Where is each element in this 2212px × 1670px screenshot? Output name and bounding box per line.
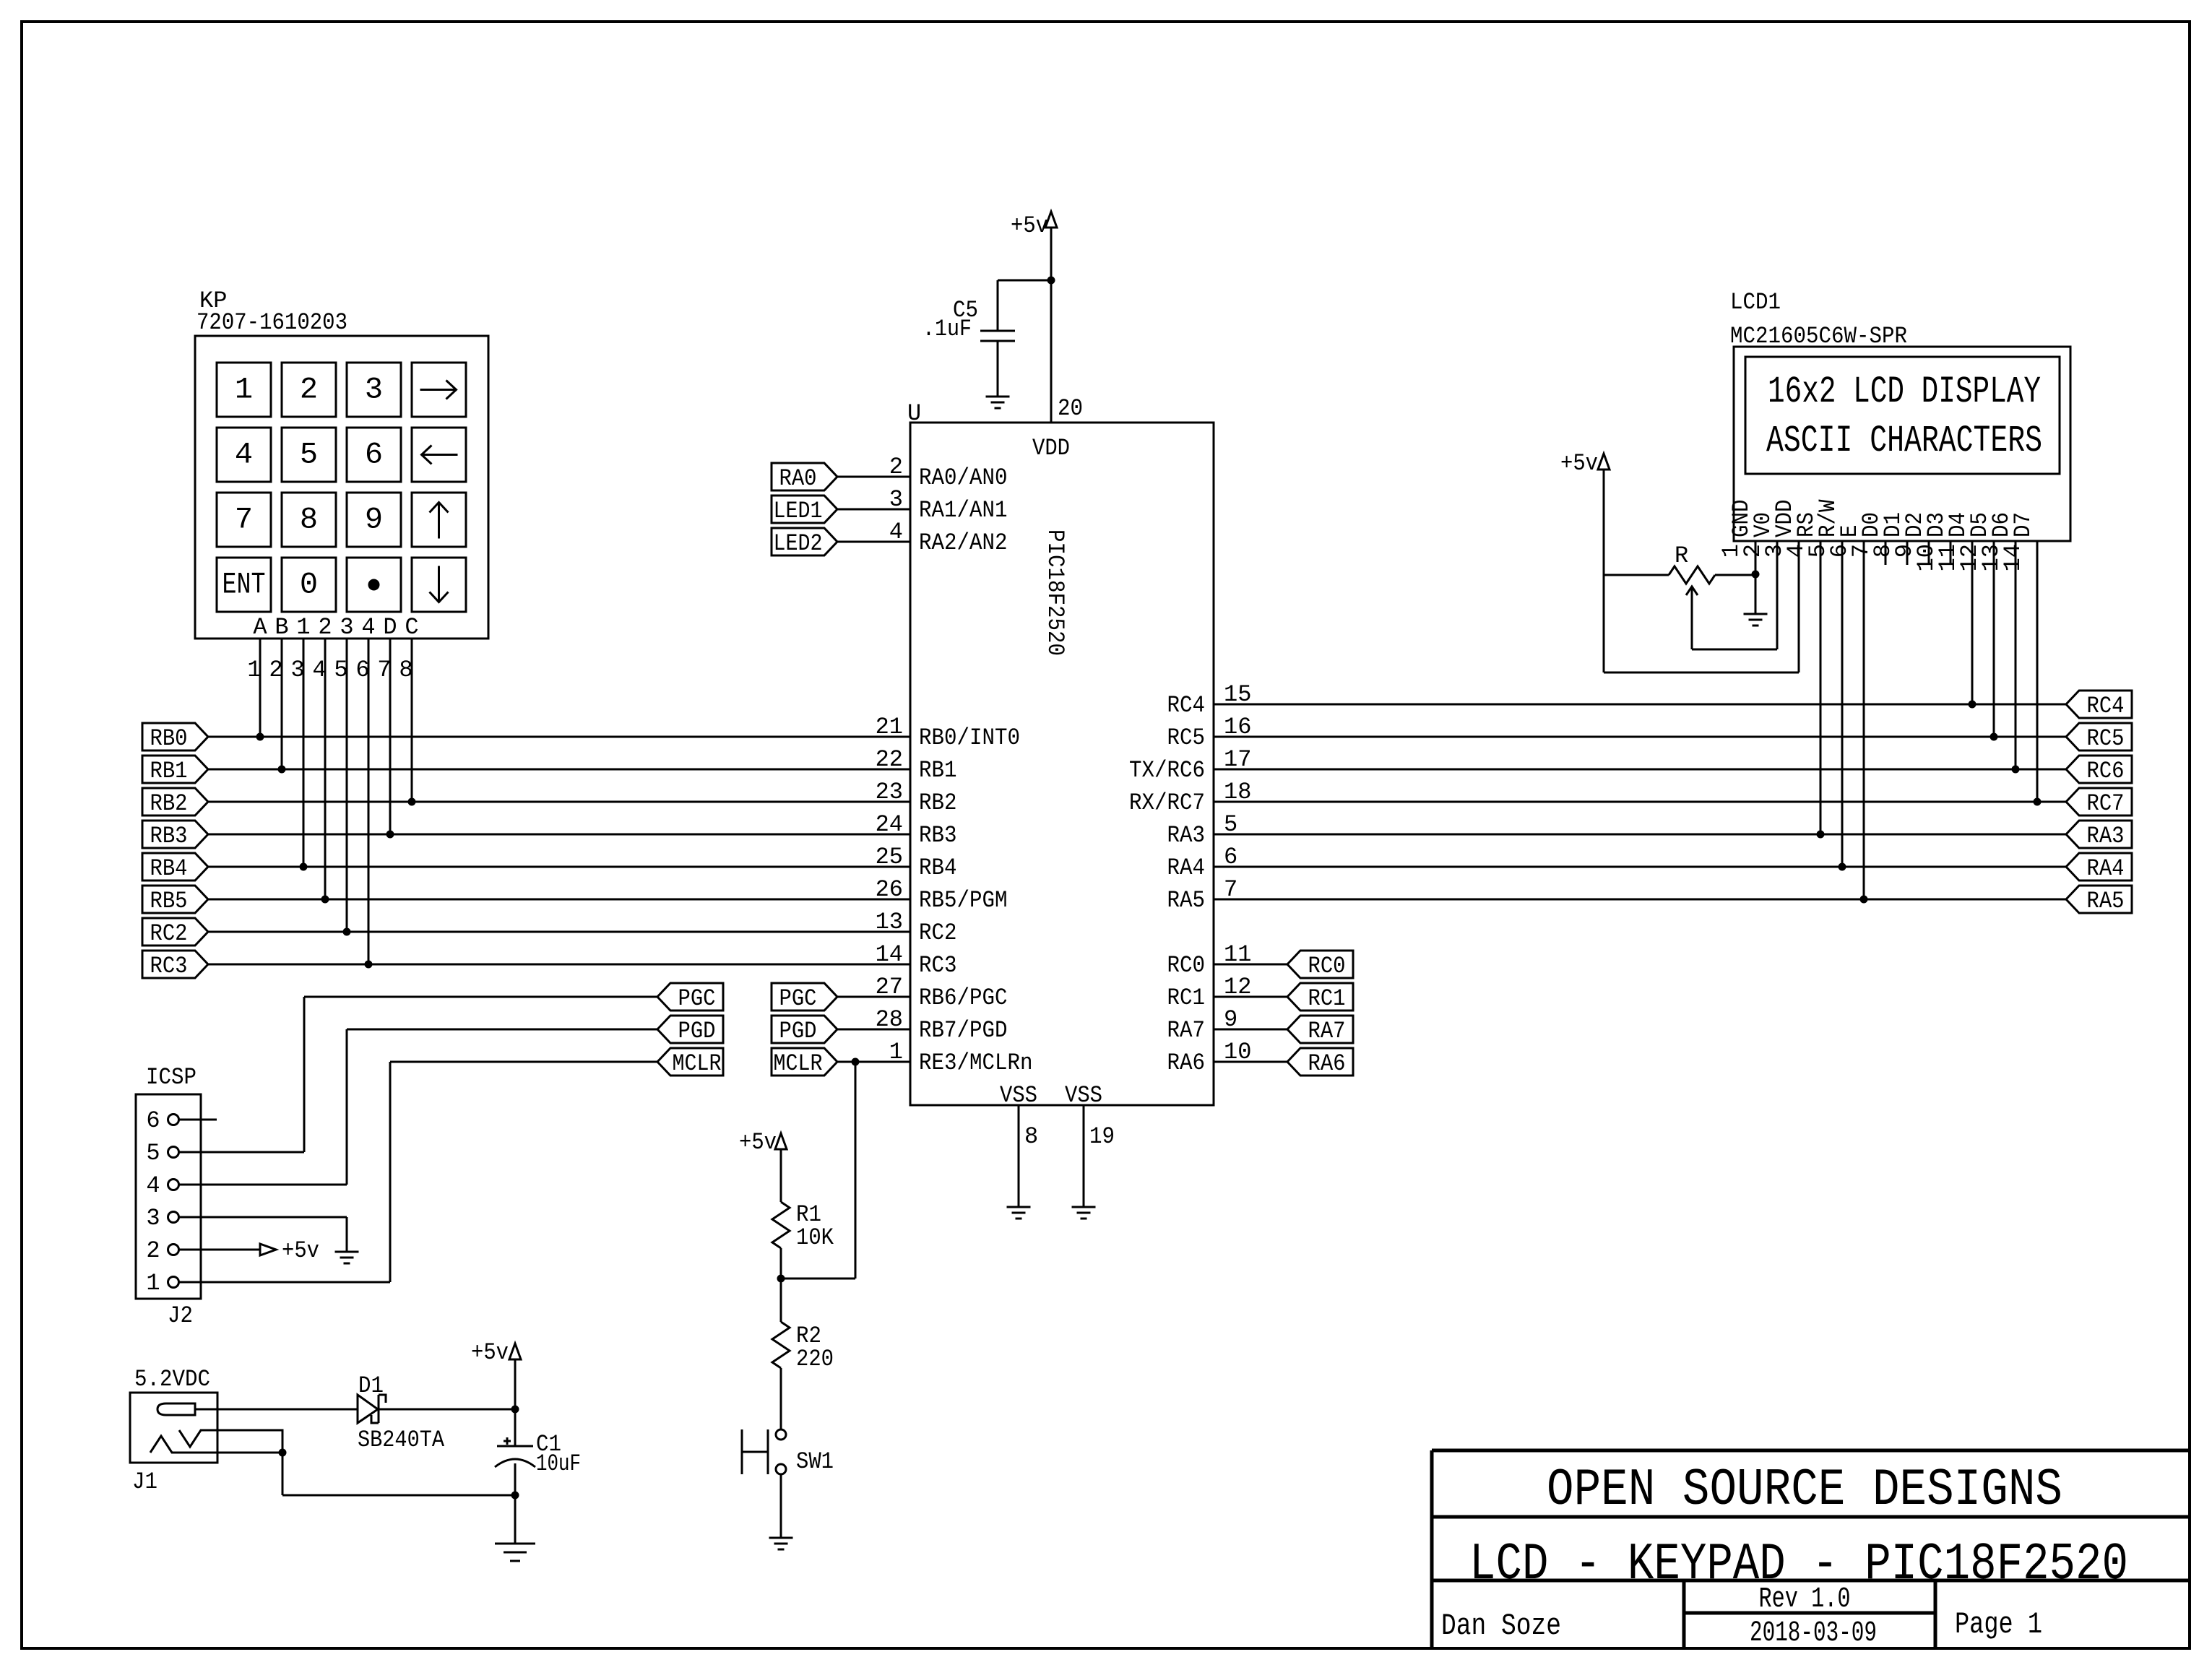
svg-text:RB3: RB3 xyxy=(150,823,188,849)
svg-text:RA0: RA0 xyxy=(779,465,817,492)
svg-text:2018-03-09: 2018-03-09 xyxy=(1750,1617,1877,1650)
net flag RC0 xyxy=(1287,951,1353,978)
svg-text:ASCII CHARACTERS: ASCII CHARACTERS xyxy=(1766,420,2042,462)
wire J2 pin3 to ground xyxy=(179,1216,347,1219)
junction xyxy=(365,961,373,969)
svg-text:ICSP: ICSP xyxy=(146,1064,196,1091)
net flag MCLR (ICSP side) xyxy=(657,1048,723,1076)
wire MCLR to R1/R2 node xyxy=(852,1058,860,1066)
ground SW1 xyxy=(769,1537,793,1539)
wire RC5 xyxy=(1214,736,2066,738)
svg-text:2: 2 xyxy=(889,454,903,480)
net flag PGD (chip side) xyxy=(772,1016,837,1043)
ground J2 pin3 xyxy=(335,1251,359,1253)
junction xyxy=(1817,831,1825,839)
svg-text:RC1: RC1 xyxy=(1167,985,1206,1011)
svg-text:+5v: +5v xyxy=(1560,450,1598,477)
svg-text:RB1: RB1 xyxy=(150,758,188,784)
wire LCD pin4 RS xyxy=(1820,541,1822,834)
svg-text:RC2: RC2 xyxy=(919,920,957,946)
potentiometer R xyxy=(1669,566,1715,584)
svg-text:0: 0 xyxy=(300,568,318,602)
net flag RC1 xyxy=(1287,983,1353,1011)
svg-text:7: 7 xyxy=(235,503,253,537)
svg-text:PGD: PGD xyxy=(678,1018,716,1044)
svg-text:14: 14 xyxy=(2000,544,2026,571)
svg-text:RA5: RA5 xyxy=(1167,887,1206,914)
wire keypad column x=540 xyxy=(389,639,392,834)
wire pot to LCD pin1 xyxy=(1715,574,1755,576)
svg-text:19: 19 xyxy=(1089,1123,1115,1150)
keypad button AD xyxy=(412,558,466,612)
svg-text:5: 5 xyxy=(146,1140,160,1167)
junction xyxy=(343,928,351,936)
wire D1 to +5v node xyxy=(379,1409,515,1411)
svg-text:Rev 1.0: Rev 1.0 xyxy=(1759,1583,1851,1616)
svg-text:RC2: RC2 xyxy=(150,920,188,947)
svg-text:U: U xyxy=(907,400,921,427)
svg-text:RB4: RB4 xyxy=(150,855,188,882)
svg-text:10K: 10K xyxy=(796,1224,834,1251)
junction xyxy=(1990,733,1998,741)
wire RB2 to U xyxy=(208,801,910,803)
svg-text:3: 3 xyxy=(889,486,903,513)
LCD pin 8 stub (n.c.) xyxy=(1906,541,1909,565)
wire RB1 to U xyxy=(208,769,910,771)
net flag RB2 xyxy=(142,788,208,815)
svg-text:4: 4 xyxy=(889,519,903,545)
net flag RA7 xyxy=(1287,1016,1353,1043)
wire MCLR to ICSP xyxy=(390,1061,657,1063)
switch SW1 xyxy=(741,1429,743,1474)
J1 tip contact xyxy=(157,1403,195,1415)
junction xyxy=(256,733,264,741)
LCD pin 10 stub (n.c.) xyxy=(1950,541,1952,565)
wire RA6 xyxy=(1214,1061,1287,1063)
svg-text:D: D xyxy=(383,614,397,641)
svg-text:RB0/INT0: RB0/INT0 xyxy=(919,724,1020,751)
svg-text:RA3: RA3 xyxy=(1167,822,1206,849)
svg-text:24: 24 xyxy=(876,811,903,838)
wire R2 to SW1 xyxy=(780,1368,782,1429)
wire RA0 xyxy=(837,476,910,478)
svg-text:RB7/PGD: RB7/PGD xyxy=(919,1017,1008,1044)
net flag RA4 xyxy=(2066,853,2132,881)
net flag RA6 xyxy=(1287,1048,1353,1076)
wire RC2 to U xyxy=(208,931,910,933)
svg-text:SW1: SW1 xyxy=(796,1448,834,1475)
svg-text:RC4: RC4 xyxy=(1167,692,1206,719)
title block frame xyxy=(1432,1449,2190,1453)
ground VSS pin 8 xyxy=(1007,1206,1031,1208)
svg-text:6: 6 xyxy=(365,438,383,472)
net flag RC4 xyxy=(2066,691,2132,718)
junction xyxy=(1752,571,1760,579)
wire R1 to node xyxy=(780,1248,782,1279)
svg-text:RB6/PGC: RB6/PGC xyxy=(919,985,1008,1011)
svg-text:8: 8 xyxy=(300,503,318,537)
keypad button 3 xyxy=(347,363,401,417)
net flag LED2 xyxy=(772,528,837,555)
svg-text:27: 27 xyxy=(876,974,903,1000)
svg-text:1: 1 xyxy=(146,1270,160,1297)
net flag RC7 xyxy=(2066,788,2132,815)
wire RC6 xyxy=(1214,769,2066,771)
junction xyxy=(278,766,286,774)
svg-text:RA3: RA3 xyxy=(2087,823,2125,849)
svg-text:+5v: +5v xyxy=(1011,212,1048,239)
junction xyxy=(1860,896,1868,904)
net flag RC5 xyxy=(2066,723,2132,750)
svg-text:J1: J1 xyxy=(132,1468,157,1495)
svg-text:3: 3 xyxy=(365,373,383,407)
svg-text:RE3/MCLRn: RE3/MCLRn xyxy=(919,1050,1033,1076)
svg-text:OPEN SOURCE DESIGNS: OPEN SOURCE DESIGNS xyxy=(1547,1461,2062,1520)
svg-text:3: 3 xyxy=(146,1205,160,1232)
wire PGD to ICSP xyxy=(347,1029,657,1031)
wire RC1 xyxy=(1214,996,1287,998)
svg-text:21: 21 xyxy=(876,714,903,740)
net flag LED1 xyxy=(772,496,837,523)
keypad KP outline xyxy=(195,336,488,639)
svg-text:RA4: RA4 xyxy=(1167,855,1206,881)
svg-text:RC0: RC0 xyxy=(1308,953,1346,979)
svg-text:MCLR: MCLR xyxy=(673,1050,722,1077)
junction xyxy=(2034,798,2042,806)
connector J2 ICSP outline xyxy=(136,1094,201,1299)
svg-text:PGD: PGD xyxy=(779,1018,817,1044)
net flag RC3 xyxy=(142,951,208,978)
svg-text:+5v: +5v xyxy=(282,1237,319,1264)
keypad button 4 xyxy=(217,428,271,482)
svg-text:4: 4 xyxy=(361,614,375,641)
wire LED1 xyxy=(837,509,910,511)
wire keypad column x=510 xyxy=(368,639,370,964)
svg-text:LED1: LED1 xyxy=(774,498,823,524)
svg-text:RA1/AN1: RA1/AN1 xyxy=(919,497,1008,524)
svg-text:14: 14 xyxy=(876,941,903,968)
wire keypad column x=570 xyxy=(411,639,413,802)
wire SW1 to ground xyxy=(780,1474,782,1538)
ground LCD pin1 xyxy=(1744,613,1768,615)
wire RC7 xyxy=(1214,801,2066,803)
svg-text:MCLR: MCLR xyxy=(774,1050,823,1077)
svg-text:RB0: RB0 xyxy=(150,725,188,752)
keypad button 7 xyxy=(217,493,271,547)
LCD1 outline xyxy=(1734,347,2070,541)
wire RA3 xyxy=(1214,834,2066,836)
wire RC0 xyxy=(1214,964,1287,966)
wire RA4 xyxy=(1214,866,2066,868)
keypad button 2 xyxy=(282,363,336,417)
wire J2 pin1 (MCLR) xyxy=(179,1281,390,1284)
svg-text:MC21605C6W-SPR: MC21605C6W-SPR xyxy=(1730,323,1907,350)
net flag RC2 xyxy=(142,918,208,946)
keypad button 1 xyxy=(217,363,271,417)
svg-text:7207-1610203: 7207-1610203 xyxy=(196,309,347,336)
svg-text:RC7: RC7 xyxy=(2087,790,2125,817)
wire LED2 xyxy=(837,541,910,543)
net flag RB3 xyxy=(142,821,208,848)
svg-text:6: 6 xyxy=(146,1107,160,1134)
svg-text:R: R xyxy=(1675,542,1688,569)
microcontroller U PIC18F2520 body xyxy=(910,423,1214,1105)
svg-text:RB2: RB2 xyxy=(150,790,188,817)
wire keypad column x=390 xyxy=(281,639,283,769)
wire RB0 to U xyxy=(208,736,910,738)
wire keypad column x=450 xyxy=(324,639,327,899)
wire RA7 xyxy=(1214,1029,1287,1031)
svg-text:B: B xyxy=(275,614,288,641)
svg-text:13: 13 xyxy=(876,909,903,935)
svg-text:2: 2 xyxy=(146,1237,160,1264)
keypad button ENT xyxy=(217,558,271,612)
svg-text:RA4: RA4 xyxy=(2087,855,2125,882)
svg-text:C: C xyxy=(405,614,418,641)
svg-text:RC1: RC1 xyxy=(1308,985,1346,1012)
svg-text:RB3: RB3 xyxy=(919,822,957,849)
svg-text:RA6: RA6 xyxy=(1308,1050,1346,1077)
wire keypad column x=480 xyxy=(346,639,348,932)
junction xyxy=(511,1406,519,1414)
svg-text:LCD1: LCD1 xyxy=(1730,289,1781,316)
junction xyxy=(511,1492,519,1500)
svg-text:20: 20 xyxy=(1058,395,1083,422)
svg-text:5.2VDC: 5.2VDC xyxy=(134,1366,210,1393)
svg-text:ENT: ENT xyxy=(223,568,266,602)
wire RB3 to U xyxy=(208,834,910,836)
svg-text:4: 4 xyxy=(146,1172,160,1199)
svg-text:16x2 LCD DISPLAY: 16x2 LCD DISPLAY xyxy=(1768,371,2041,413)
wire LCD pin6 E xyxy=(1863,541,1865,899)
net flag RB0 xyxy=(142,723,208,750)
LCD pin 7 stub (n.c.) xyxy=(1885,541,1887,565)
svg-text:25: 25 xyxy=(876,844,903,870)
net flag RB5 xyxy=(142,886,208,913)
svg-text:1: 1 xyxy=(296,614,310,641)
svg-text:3: 3 xyxy=(340,614,353,641)
wire MCLR to U xyxy=(837,1061,910,1063)
svg-text:2: 2 xyxy=(318,614,332,641)
net flag RA3 xyxy=(2066,821,2132,848)
svg-text:RB1: RB1 xyxy=(919,757,957,784)
wire J2 pin6 stub xyxy=(179,1119,217,1121)
pot wiper arrow xyxy=(1686,587,1698,595)
capacitor C1 10uF xyxy=(514,1409,517,1446)
svg-text:VSS: VSS xyxy=(1000,1082,1037,1109)
svg-text:RB2: RB2 xyxy=(919,789,957,816)
net flag PGC (chip side) xyxy=(772,983,837,1011)
svg-text:RB5: RB5 xyxy=(150,888,188,914)
junction xyxy=(1047,277,1055,285)
wire keypad column x=420 xyxy=(303,639,305,867)
net flag MCLR (chip side) xyxy=(772,1048,837,1076)
keypad button 6 xyxy=(347,428,401,482)
svg-text:A: A xyxy=(253,614,267,641)
svg-text:RC4: RC4 xyxy=(2087,693,2125,719)
svg-text:J2: J2 xyxy=(168,1302,193,1329)
junction xyxy=(300,863,308,871)
svg-text:23: 23 xyxy=(876,779,903,805)
svg-text:SB240TA: SB240TA xyxy=(358,1427,445,1453)
svg-text:RA2/AN2: RA2/AN2 xyxy=(919,529,1008,556)
svg-text:RA7: RA7 xyxy=(1308,1018,1346,1044)
keypad button 8 xyxy=(282,493,336,547)
svg-text:RB5/PGM: RB5/PGM xyxy=(919,887,1008,914)
wire +5v rail xyxy=(1603,470,1605,672)
wire J2 pin2 to +5v xyxy=(179,1249,260,1251)
wire +5v to R1 xyxy=(780,1149,782,1202)
svg-text:9: 9 xyxy=(365,503,383,537)
junction xyxy=(408,798,416,806)
svg-text:28: 28 xyxy=(876,1006,903,1033)
wire J1 tip to D1 xyxy=(195,1409,358,1411)
svg-text:D7: D7 xyxy=(2010,512,2036,537)
svg-text:RC3: RC3 xyxy=(150,953,188,979)
keypad button 9 xyxy=(347,493,401,547)
svg-text:RB4: RB4 xyxy=(919,855,957,881)
keypad button 0 xyxy=(282,558,336,612)
svg-text:RC6: RC6 xyxy=(2087,758,2125,784)
wire LCD pin5 R/W xyxy=(1841,541,1844,867)
capacitor C5 .1uF xyxy=(980,330,1015,332)
wire J2 pin4 (PGD) xyxy=(179,1184,347,1186)
svg-text:RC0: RC0 xyxy=(1167,952,1206,979)
wire node to R2 xyxy=(780,1279,782,1322)
svg-text:1: 1 xyxy=(889,1039,903,1065)
keypad button 5 xyxy=(282,428,336,482)
ground C1 xyxy=(495,1543,535,1545)
junction xyxy=(321,896,329,904)
wire LCD pin3 VDD to +5v xyxy=(1798,541,1800,672)
svg-text:.1uF: .1uF xyxy=(923,316,972,342)
svg-text:22: 22 xyxy=(876,746,903,773)
svg-text:RA5: RA5 xyxy=(2087,888,2125,914)
svg-text:26: 26 xyxy=(876,876,903,903)
net flag RA5 xyxy=(2066,886,2132,913)
wire PGD to U xyxy=(837,1029,910,1031)
LCD1 display window xyxy=(1745,357,2060,474)
wire RC3 to U xyxy=(208,964,910,966)
junction xyxy=(1839,863,1846,871)
svg-text:VSS: VSS xyxy=(1065,1082,1102,1109)
svg-text:RX/RC7: RX/RC7 xyxy=(1129,789,1205,816)
wire LCD pin11 D4 xyxy=(1971,541,1974,704)
svg-text:RC5: RC5 xyxy=(2087,725,2125,752)
svg-text:D1: D1 xyxy=(358,1372,384,1399)
svg-text:RC3: RC3 xyxy=(919,952,957,979)
svg-text:RA0/AN0: RA0/AN0 xyxy=(919,464,1008,491)
net flag RC6 xyxy=(2066,756,2132,783)
wire RC4 xyxy=(1214,704,2066,706)
J1 sleeve contact xyxy=(150,1436,282,1453)
wire LCD pin14 D7 xyxy=(2036,541,2039,802)
svg-text:Page 1: Page 1 xyxy=(1955,1607,2042,1642)
ground C5 xyxy=(986,396,1010,398)
keypad button AL xyxy=(412,428,466,482)
wire LCD pin12 D5 xyxy=(1993,541,1995,737)
svg-text:2: 2 xyxy=(300,373,318,407)
wire LCD pin13 D6 xyxy=(2015,541,2017,769)
svg-text:RC5: RC5 xyxy=(1167,724,1206,751)
wire keypad column x=360 xyxy=(259,639,262,737)
keypad button AU xyxy=(412,493,466,547)
wire J2 pin5 (PGC) xyxy=(179,1151,304,1154)
svg-text:PGC: PGC xyxy=(779,985,817,1012)
net flag PGC (ICSP side) xyxy=(657,983,723,1011)
net flag PGD (ICSP side) xyxy=(657,1016,723,1043)
wire +5v to VDD xyxy=(1050,228,1053,280)
svg-text:+5v: +5v xyxy=(739,1129,777,1156)
resistor R2 220 xyxy=(772,1322,790,1368)
keypad button DOT xyxy=(347,558,401,612)
junction xyxy=(386,831,394,839)
wire LCD pin2 V0 to wiper xyxy=(1776,541,1779,649)
svg-text:Dan Soze: Dan Soze xyxy=(1441,1609,1561,1643)
LCD pin 9 stub (n.c.) xyxy=(1928,541,1930,565)
connector J1 outline xyxy=(130,1393,217,1463)
net flag RB1 xyxy=(142,756,208,783)
wire PGC to U xyxy=(837,996,910,998)
svg-text:10uF: 10uF xyxy=(536,1450,581,1477)
power +5v (ICSP) arrow right xyxy=(260,1244,276,1255)
svg-text:1: 1 xyxy=(235,373,253,407)
svg-text:LED2: LED2 xyxy=(774,530,823,557)
svg-text:TX/RC6: TX/RC6 xyxy=(1129,757,1205,784)
svg-text:RA7: RA7 xyxy=(1167,1017,1206,1044)
svg-text:+5v: +5v xyxy=(471,1339,509,1366)
net flag RB4 xyxy=(142,853,208,881)
svg-text:5: 5 xyxy=(300,438,318,472)
keypad button AR xyxy=(412,363,466,417)
wire RA5 xyxy=(1214,899,2066,901)
junction xyxy=(1969,701,1976,709)
junction R1/R2/MCLR xyxy=(777,1275,785,1283)
svg-text:220: 220 xyxy=(796,1346,834,1372)
svg-text:RA6: RA6 xyxy=(1167,1050,1206,1076)
wire to C5 xyxy=(998,280,1051,282)
svg-text:8: 8 xyxy=(1024,1123,1038,1150)
junction xyxy=(2012,766,2020,774)
net flag RA0 xyxy=(772,463,837,490)
junction J1 return xyxy=(279,1449,287,1457)
svg-text:VDD: VDD xyxy=(1032,435,1070,462)
wire C5 to ground xyxy=(997,341,999,397)
svg-text:PGC: PGC xyxy=(678,985,716,1012)
wire J1 return xyxy=(282,1453,284,1495)
wire C1 to ground node xyxy=(514,1463,517,1495)
wire RB4 to U xyxy=(208,866,910,868)
resistor R1 10K xyxy=(772,1202,790,1248)
ground VSS pin 19 xyxy=(1072,1206,1096,1208)
svg-text:4: 4 xyxy=(235,438,253,472)
svg-text:PIC18F2520: PIC18F2520 xyxy=(1042,529,1068,656)
diode D1 SB240TA xyxy=(358,1395,378,1423)
wire RB5 to U xyxy=(208,899,910,901)
wire LCD pin1 GND xyxy=(1755,541,1757,574)
wire PGC to ICSP xyxy=(304,996,657,998)
